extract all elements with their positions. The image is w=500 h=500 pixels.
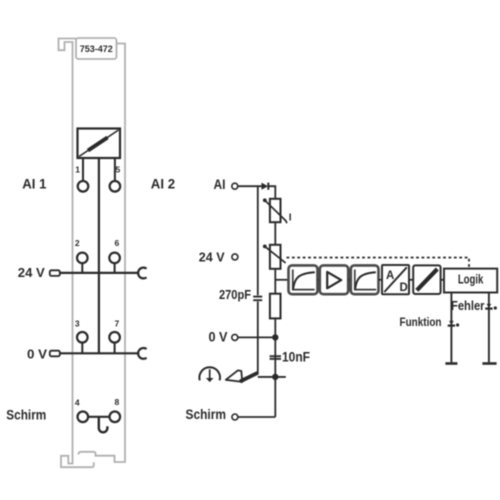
data symbol Funktion	[448, 321, 460, 327]
svg-text:6: 6	[115, 238, 120, 248]
svg-text:270pF: 270pF	[219, 288, 251, 302]
capacitor 270pF	[253, 297, 262, 301]
module body outline left/latch	[59, 39, 94, 468]
svg-text:0 V: 0 V	[209, 329, 229, 345]
wire chassis horizontal	[258, 376, 286, 378]
label box 753-472	[76, 38, 117, 59]
display box with diagonal	[78, 129, 121, 159]
wire Schirm	[238, 416, 275, 418]
dashed control line	[287, 258, 470, 269]
block A/D converter	[382, 265, 409, 294]
svg-text:Schirm: Schirm	[6, 406, 46, 422]
terminal circle 1	[78, 181, 89, 192]
terminal AI circuit	[232, 183, 238, 189]
wire AI to diode	[238, 185, 262, 187]
svg-text:AI 2: AI 2	[151, 175, 175, 191]
terminal circle 4	[78, 412, 89, 423]
diode D1	[262, 183, 269, 190]
wire R2 down	[274, 269, 276, 294]
wire diode to corner down	[268, 186, 275, 199]
svg-text:A: A	[386, 270, 394, 282]
wire stub block1-block2	[318, 279, 320, 281]
data symbol Fehler	[485, 304, 497, 310]
terminal circle 6	[109, 253, 120, 264]
wire stub block4-block5	[409, 279, 413, 281]
svg-text:5: 5	[116, 164, 121, 174]
terminal 24V circuit	[232, 254, 238, 260]
resistor R3	[270, 294, 281, 319]
wire module middle vertical	[98, 158, 100, 353]
fork contact 0V	[138, 348, 147, 359]
svg-text:Logik: Logik	[458, 273, 484, 287]
svg-text:2: 2	[75, 238, 80, 248]
functional earth symbol	[199, 367, 220, 382]
terminal 0V circuit	[232, 334, 238, 340]
terminal circle 5	[110, 181, 121, 192]
wire logik output right	[488, 293, 490, 363]
wire stub terminal 1	[82, 158, 84, 181]
svg-text:10nF: 10nF	[282, 350, 310, 365]
fork contact 24V	[138, 268, 147, 279]
svg-text:AI: AI	[214, 176, 226, 192]
wire stub terminal 2	[81, 263, 83, 273]
terminal Schirm circuit	[232, 414, 238, 420]
wire 24V module rail	[60, 272, 139, 274]
spade connector 0V	[50, 351, 60, 357]
svg-text:7: 7	[115, 319, 120, 329]
wire stub terminal 7	[114, 343, 116, 354]
wire 0V to node	[238, 336, 275, 338]
wire between terminals 4 and 8	[88, 416, 109, 418]
bus bar left	[445, 362, 457, 365]
terminal circle 8	[110, 412, 121, 423]
svg-text:D: D	[400, 282, 408, 294]
svg-text:AI 1: AI 1	[22, 175, 46, 191]
wire stub block2-block3	[348, 279, 351, 281]
svg-text:1: 1	[75, 164, 80, 174]
svg-text:I: I	[289, 213, 292, 224]
svg-text:Fehler: Fehler	[451, 298, 485, 313]
shield hook on wire	[99, 417, 108, 433]
wire branch to blocks	[275, 279, 288, 281]
wire R3 down to Schirm corner	[274, 318, 276, 417]
svg-text:8: 8	[115, 397, 120, 407]
block filter 1	[289, 265, 318, 294]
node 0V junction	[272, 334, 278, 340]
wire 0V module rail	[60, 352, 139, 354]
wire logik output left	[450, 293, 452, 363]
variable resistor R2	[263, 245, 286, 269]
svg-text:753-472: 753-472	[80, 44, 113, 54]
node chassis junction	[272, 374, 278, 380]
wire left branch upper	[257, 186, 259, 295]
shield clamp plate	[226, 370, 258, 382]
module body outline right	[79, 44, 126, 463]
capacitor 10nF	[270, 356, 281, 359]
logic box U1	[444, 269, 497, 293]
svg-text:3: 3	[75, 319, 80, 329]
svg-text:4: 4	[75, 397, 80, 407]
svg-text:Funktion: Funktion	[400, 315, 442, 329]
svg-text:24 V: 24 V	[199, 249, 225, 264]
block filter 2	[351, 265, 379, 294]
spade connector 24V	[50, 270, 60, 276]
block amplifier	[320, 265, 348, 294]
svg-text:0 V: 0 V	[27, 347, 47, 362]
terminal circle 2	[77, 253, 88, 264]
wire stub block3-block4	[379, 279, 383, 281]
block galvanic isolation	[413, 265, 440, 294]
terminal circle 3	[77, 332, 88, 343]
svg-text:24 V: 24 V	[18, 265, 45, 280]
bus bar right	[482, 362, 496, 365]
wire stub terminal 5	[114, 158, 116, 181]
wire stub terminal 6	[114, 263, 116, 273]
terminal circle 7	[109, 332, 120, 343]
wire R1 to R2	[274, 222, 276, 245]
svg-text:Schirm: Schirm	[186, 406, 227, 422]
variable resistor R1	[263, 198, 287, 223]
wire stub block5-logik	[441, 279, 444, 281]
wire stub terminal 3	[81, 343, 83, 354]
wire left branch lower	[257, 302, 259, 375]
